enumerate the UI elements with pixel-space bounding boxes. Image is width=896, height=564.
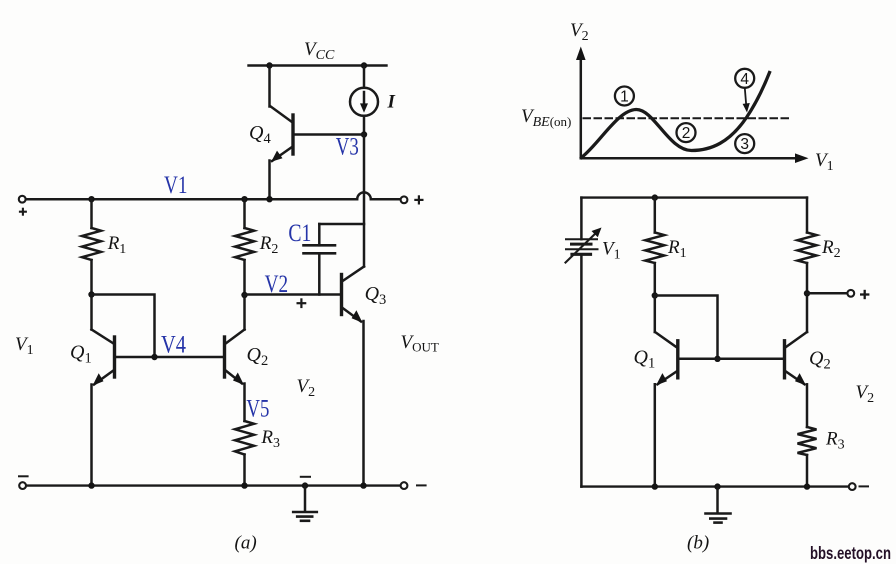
node V3 (361, 131, 367, 137)
svg-text:R1: R1 (107, 233, 127, 257)
node R2(b) bottom junction (804, 290, 810, 296)
wire Q2(b) collector (806, 293, 809, 332)
transistor Q2 (b) (785, 332, 808, 385)
svg-text:V1: V1 (164, 172, 188, 199)
svg-text:Q4: Q4 (249, 122, 271, 147)
terminal top-right output (401, 196, 408, 203)
svg-text:V3: V3 (336, 133, 359, 160)
terminal bottom minus (b) (849, 483, 856, 490)
svg-text:C1: C1 (288, 220, 311, 247)
graph curve (582, 73, 770, 158)
svg-text:V1: V1 (15, 334, 34, 358)
wire Q3 emitter down to bottom rail (362, 321, 365, 486)
wire V1 rail with hop over V3 line (25, 192, 400, 199)
node V1-Q4 emitter junction (266, 196, 272, 202)
svg-text:Q2: Q2 (809, 347, 831, 372)
svg-text:V2: V2 (570, 20, 589, 44)
transistor Q3 (342, 267, 365, 323)
minus mark right of bottom-right terminal (417, 484, 426, 486)
transistor Q4 (270, 106, 364, 162)
arrow from circle 4 to curve (743, 88, 750, 113)
svg-text:R3: R3 (825, 429, 845, 453)
svg-text:V4: V4 (161, 332, 186, 359)
svg-text:4: 4 (740, 71, 749, 88)
svg-text:Q2: Q2 (247, 344, 269, 369)
current source I (350, 88, 378, 116)
svg-text:V1: V1 (602, 239, 621, 263)
label plus under V2 wire (297, 298, 307, 308)
transistor Q1 (92, 330, 115, 386)
svg-text:V2: V2 (856, 382, 875, 406)
minus mark above bottom-left terminal (19, 475, 28, 477)
wire V2 node to Q3 base (245, 293, 341, 296)
node V1-R2 junction (241, 196, 247, 202)
node rail Q1(b) junction (652, 483, 658, 489)
terminal bottom-left (19, 482, 26, 489)
svg-text:V5: V5 (246, 396, 269, 423)
ground symbol (b) (706, 487, 731, 523)
minus mark right of (b) bottom terminal (860, 485, 869, 487)
svg-text:Q1: Q1 (634, 346, 656, 371)
svg-text:R2: R2 (259, 233, 279, 257)
svg-text:R1: R1 (667, 237, 687, 261)
resistor R2 (b) (798, 198, 817, 294)
node V2 (R2 bottom) junction (241, 292, 247, 298)
svg-text:R2: R2 (821, 237, 841, 261)
wire Q1(b) collector (654, 296, 657, 333)
wire R1 bottom to V4 (92, 295, 155, 358)
wire base rail (b) (680, 358, 783, 361)
svg-text:VBE(on): VBE(on) (521, 106, 571, 130)
svg-text:bbs.eetop.cn: bbs.eetop.cn (810, 543, 891, 563)
label plus top-left (19, 208, 27, 216)
terminal output plus (847, 290, 854, 297)
node rail-ground junction (302, 482, 308, 488)
svg-text:Q3: Q3 (365, 283, 387, 308)
svg-text:V2: V2 (265, 271, 289, 298)
svg-text:V2: V2 (297, 376, 316, 400)
resistor R3 (b) (798, 427, 817, 487)
node V1-R1 junction (88, 196, 94, 202)
svg-text:I: I (387, 92, 396, 113)
wire bottom rail of (a) (26, 484, 401, 486)
node R1 bottom junction (88, 291, 94, 297)
graph dashed VBE(on) line (584, 117, 791, 119)
svg-text:3: 3 (740, 136, 749, 153)
wire bottom rail of (b) (581, 485, 848, 487)
svg-text:R3: R3 (260, 427, 280, 451)
wire top rail of (b) (581, 196, 807, 198)
node VCC-I junction (361, 62, 367, 68)
svg-text:V1: V1 (815, 150, 834, 174)
wire output to terminal (807, 292, 847, 295)
label circled 3 (735, 134, 754, 153)
transistor Q1 (b) (655, 332, 678, 385)
node top rail R1 junction (652, 194, 658, 200)
node V4 junction (151, 354, 157, 360)
node VCC-Q4 junction (266, 62, 272, 68)
wire left branch bottom (580, 254, 583, 486)
terminal top-left input (19, 196, 26, 203)
svg-text:Q1: Q1 (70, 342, 92, 367)
wire Q4 collector to VCC (268, 66, 271, 107)
svg-text:1: 1 (620, 89, 629, 106)
wire Q2(b) emitter to R3 (806, 384, 809, 427)
svg-text:(a): (a) (235, 533, 257, 554)
wire Q2 collector to V2 node (243, 295, 246, 330)
wire Q1 collector to R1 bottom (90, 295, 93, 330)
wire Q4 emitter to V1 rail (268, 161, 271, 200)
node rail R3 (b) junction (804, 483, 810, 489)
label circled 1 (615, 87, 634, 106)
wire V4 base rail (116, 356, 223, 359)
resistor R2 (235, 199, 254, 295)
graph x-axis V1 (581, 153, 809, 163)
wire Q2 emitter to R3 (243, 384, 246, 422)
svg-text:VCC: VCC (304, 39, 335, 63)
wire left branch top (580, 198, 583, 240)
wire Q1 emitter to bottom rail (90, 385, 93, 486)
transistor Q2 (225, 330, 245, 385)
wire VCC rail (249, 64, 387, 66)
node rail ground (b) junction (714, 483, 720, 489)
resistor R3 (235, 421, 254, 486)
node rail-Q1 junction (88, 482, 94, 488)
label circled 2 (677, 123, 696, 142)
node rail-R3 junction (241, 482, 247, 488)
resistor R1 (82, 199, 101, 294)
svg-text:(b): (b) (687, 533, 709, 554)
capacitor C1 (304, 224, 365, 295)
node rail-Q3 junction (360, 482, 366, 488)
wire Q1(b) emitter to rail (654, 384, 657, 486)
node R1(b) bottom junction (652, 292, 658, 298)
ground symbol (a) (293, 486, 317, 521)
wire VCC to current source (363, 66, 366, 88)
resistor R1 (b) (645, 198, 664, 296)
graph y-axis V2 (576, 47, 586, 159)
wire R1 bottom to bases (655, 296, 718, 359)
label plus output (b) (860, 290, 869, 299)
svg-text:VOUT: VOUT (401, 332, 439, 355)
label plus top-right (414, 195, 423, 204)
label circled 4 (735, 69, 754, 88)
wire current source to V3 node (363, 116, 366, 135)
node base rail junction (714, 356, 720, 362)
battery V1 (variable) (566, 228, 602, 263)
svg-text:2: 2 (682, 125, 691, 142)
terminal bottom-right (401, 482, 408, 489)
minus mark above ground (301, 476, 310, 478)
wire V3 line down to Q3 collector (363, 135, 366, 267)
